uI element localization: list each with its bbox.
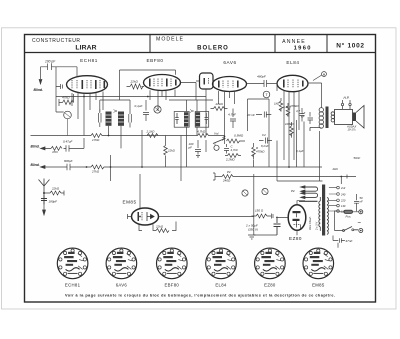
wire detector line bbox=[248, 99, 270, 167]
volume pot wiper bbox=[213, 138, 225, 144]
meter point M bbox=[322, 72, 327, 77]
svg-text:ECH81: ECH81 bbox=[65, 283, 81, 288]
wire coupling bbox=[276, 141, 278, 177]
wire EM85 grid bbox=[139, 174, 141, 208]
svg-text:19-17c: 19-17c bbox=[348, 128, 357, 132]
capacitor 50nF mains bbox=[354, 194, 359, 211]
IF2 secondary coil bbox=[196, 112, 201, 126]
IF1 trimmer cap left bbox=[99, 109, 102, 127]
M circle bbox=[242, 190, 248, 196]
svg-text:4,7kΩ: 4,7kΩ bbox=[197, 130, 206, 134]
svg-text:0,1μF: 0,1μF bbox=[296, 149, 304, 153]
socket ECH81 bbox=[57, 248, 88, 279]
heater bus line bbox=[215, 176, 222, 178]
node dot bbox=[147, 96, 149, 98]
wire IF1 secondary return bbox=[141, 130, 143, 167]
wire AF takeoff bbox=[110, 155, 112, 181]
resistor 22k EBF80 grid bbox=[127, 84, 145, 89]
wire 6AV6 pins bbox=[219, 91, 235, 137]
capacitor 800pF bbox=[67, 164, 91, 170]
wire stub up bbox=[83, 138, 85, 148]
IF2 secondary box bbox=[195, 112, 209, 128]
resistor 1k vertical bbox=[279, 98, 283, 112]
node dot EM85 bbox=[139, 216, 141, 218]
speaker frame bbox=[335, 110, 353, 125]
antenna arrow down bbox=[43, 205, 46, 215]
svg-text:2 x 3 V: 2 x 3 V bbox=[315, 222, 319, 231]
screen bypass caps column bbox=[279, 98, 304, 138]
svg-text:22kΩ: 22kΩ bbox=[215, 102, 224, 106]
test point T bbox=[263, 91, 270, 98]
resistor 17k bbox=[91, 134, 198, 138]
fuse bbox=[344, 210, 353, 213]
tube ECH81 electrodes bbox=[72, 80, 105, 89]
wire B+ feed bbox=[319, 131, 321, 181]
svg-text:N° 1002: N° 1002 bbox=[336, 42, 364, 50]
wire osc section bbox=[56, 67, 64, 112]
wire filter center bbox=[253, 174, 255, 235]
svg-text:ECH81: ECH81 bbox=[80, 58, 98, 63]
svg-text:H.P.: H.P. bbox=[344, 96, 350, 100]
header bottom rule bbox=[25, 52, 376, 54]
wire cap to grid bbox=[56, 67, 77, 77]
svg-text:22kΩ: 22kΩ bbox=[51, 187, 60, 191]
svg-text:4,7nF: 4,7nF bbox=[228, 113, 237, 117]
IF1 secondary coil bbox=[118, 112, 124, 126]
svg-text:150 Ω: 150 Ω bbox=[255, 209, 264, 213]
svg-text:2,2MΩ: 2,2MΩ bbox=[225, 158, 235, 162]
svg-text:47kΩ: 47kΩ bbox=[62, 96, 70, 100]
wire top link bbox=[120, 70, 176, 100]
svg-text:EM85: EM85 bbox=[123, 200, 137, 205]
svg-text:nF: nF bbox=[301, 115, 305, 119]
svg-text:2x3: 2x3 bbox=[340, 186, 346, 190]
node dot bbox=[83, 96, 85, 98]
wire IF2 ground bbox=[180, 136, 182, 182]
socket 6AV6 bbox=[106, 248, 137, 279]
svg-text:22kΩ: 22kΩ bbox=[155, 225, 164, 229]
svg-text:EL84: EL84 bbox=[286, 60, 299, 65]
svg-text:240: 240 bbox=[340, 192, 346, 196]
wire grid return bbox=[253, 160, 255, 168]
EM85 leads bbox=[128, 214, 254, 231]
node dot antenna bbox=[43, 192, 45, 194]
primary winding left bbox=[319, 197, 320, 231]
terminal bar bbox=[213, 173, 215, 180]
trimmer circle bbox=[154, 106, 161, 113]
wire filter bus bbox=[254, 234, 277, 236]
wire switch to transformer bbox=[335, 211, 344, 231]
ground filter bbox=[248, 235, 256, 239]
capacitor 47nF bbox=[333, 238, 345, 242]
svg-text:~: ~ bbox=[358, 221, 362, 227]
IF transformer 2 bbox=[169, 100, 213, 140]
mains terminal 1 bbox=[359, 210, 363, 214]
grid terminal bbox=[56, 84, 63, 89]
mains taps bbox=[329, 188, 337, 211]
svg-text:Pil.: Pil. bbox=[291, 189, 295, 193]
switch bbox=[344, 227, 358, 231]
capacitor 8.2nF coupling bbox=[259, 138, 272, 144]
resistor 240 bbox=[222, 175, 356, 182]
resistor 150 filter bbox=[252, 214, 274, 219]
resistor 470k vertical bbox=[252, 143, 256, 159]
header divider v1 bbox=[149, 35, 151, 53]
svg-text:4,7nF: 4,7nF bbox=[231, 148, 239, 152]
svg-text:4,7: 4,7 bbox=[296, 109, 300, 113]
IF2 primary cap bbox=[175, 113, 179, 124]
heater winding loop 2 bbox=[302, 193, 318, 197]
resistor 22k EM85 bbox=[156, 229, 169, 233]
svg-text:EL84: EL84 bbox=[215, 283, 227, 288]
speaker cone bbox=[356, 106, 364, 129]
capacitor 4.7nF det bbox=[230, 109, 236, 129]
node dot bbox=[224, 136, 226, 138]
svg-text:Blind.: Blind. bbox=[34, 88, 43, 92]
EM85 electrodes bbox=[138, 212, 155, 221]
grid resistor 22k vertical bbox=[164, 136, 168, 168]
IF2 primary coil bbox=[184, 112, 189, 126]
svg-text:CONSTRUCTEUR: CONSTRUCTEUR bbox=[32, 38, 81, 44]
svg-text:6AV6: 6AV6 bbox=[223, 60, 236, 65]
header divider v3 bbox=[326, 35, 328, 53]
svg-text:47nF: 47nF bbox=[346, 239, 353, 243]
capacitor 100pF bbox=[195, 140, 201, 157]
svg-text:1960: 1960 bbox=[294, 45, 312, 51]
wire AVC bus bbox=[56, 96, 206, 98]
tube ECH81 envelope bbox=[67, 76, 108, 94]
svg-text:50nF: 50nF bbox=[354, 156, 361, 160]
svg-text:EZ80: EZ80 bbox=[264, 283, 276, 288]
resistor 22k antenna bbox=[44, 191, 64, 196]
socket EZ80 bbox=[255, 248, 286, 279]
IF transformer 1 bbox=[100, 100, 130, 148]
svg-text:Pil.: Pil. bbox=[227, 170, 231, 174]
blind line 2 arrow bbox=[41, 166, 68, 169]
IF2 primary box bbox=[174, 112, 189, 128]
capacitor 0.47uF bbox=[64, 145, 85, 151]
capacitor 4.7nF pot bbox=[224, 144, 229, 154]
tube EL84 envelope bbox=[277, 75, 308, 91]
wire cathode return bbox=[296, 120, 298, 167]
IF1 primary coil bbox=[106, 112, 112, 126]
EZ80 leads bbox=[276, 201, 305, 236]
svg-text:Voir à la page suivante le cro: Voir à la page suivante le croquis du bl… bbox=[65, 294, 335, 298]
header divider v2 bbox=[274, 35, 276, 53]
wire 6AV6 diode bbox=[196, 81, 206, 136]
coupling capacitor 480pF bbox=[247, 80, 278, 87]
wire EL84 anode bbox=[308, 83, 322, 108]
svg-text:nF: nF bbox=[360, 199, 364, 203]
svg-text:480pF: 480pF bbox=[257, 75, 267, 79]
speaker magnet bbox=[353, 113, 357, 122]
svg-text:EZ80: EZ80 bbox=[289, 236, 302, 241]
secondary winding right bbox=[327, 198, 328, 235]
svg-text:6AV6: 6AV6 bbox=[116, 283, 128, 288]
resistor 47 bbox=[51, 146, 62, 150]
socket EM85 bbox=[303, 248, 334, 279]
capacitor 180pF bbox=[41, 195, 47, 204]
svg-text:2,2kΩ: 2,2kΩ bbox=[146, 129, 156, 133]
svg-text:27kΩ: 27kΩ bbox=[91, 169, 100, 173]
pot terminal P bbox=[214, 145, 219, 150]
svg-text:2kΩ: 2kΩ bbox=[332, 167, 339, 171]
main AVC line bbox=[31, 134, 225, 138]
svg-text:0,47μF: 0,47μF bbox=[63, 140, 72, 144]
svg-text:T: T bbox=[265, 93, 267, 97]
output transformer primary bbox=[310, 108, 323, 131]
output transformer core bbox=[326, 107, 329, 129]
svg-text:22kΩ: 22kΩ bbox=[167, 149, 176, 153]
volume pot resistor 0.5M bbox=[227, 139, 246, 143]
svg-text:Vol.: Vol. bbox=[214, 132, 219, 136]
tube EBF80 envelope bbox=[144, 75, 181, 91]
svg-text:Blind.: Blind. bbox=[31, 145, 40, 149]
wire antenna feed arrow bbox=[39, 67, 42, 84]
svg-text:180pF: 180pF bbox=[49, 200, 58, 204]
electrolytic 2x50uF bbox=[274, 217, 281, 236]
tube 6AV6 diode box bbox=[200, 73, 214, 89]
tube EL84 electrodes bbox=[283, 80, 304, 88]
svg-text:470kΩ: 470kΩ bbox=[256, 150, 265, 154]
capacitor 100pF bbox=[41, 64, 57, 71]
resistor 47k bbox=[59, 94, 74, 106]
IF2 secondary cap bbox=[205, 113, 209, 124]
wire EBF80 anode bbox=[181, 83, 197, 101]
wire AVC junction bbox=[224, 137, 226, 144]
mains terminal 2 bbox=[359, 229, 363, 233]
svg-text:ANNEE: ANNEE bbox=[282, 39, 306, 45]
svg-text:Vers Chauf.: Vers Chauf. bbox=[308, 216, 312, 230]
blind line 1 arrow bbox=[41, 147, 52, 150]
antenna bbox=[39, 179, 50, 206]
tube EBF80 electrodes bbox=[149, 79, 177, 87]
IF1 trimmer cap right bbox=[129, 111, 132, 128]
svg-text:130: 130 bbox=[341, 204, 346, 208]
svg-text:(350 V): (350 V) bbox=[248, 228, 258, 232]
svg-text:EBF80: EBF80 bbox=[164, 283, 179, 288]
tube EZ80 envelope bbox=[288, 205, 306, 231]
svg-text:800pF: 800pF bbox=[64, 159, 73, 163]
resistor 100k vertical bbox=[290, 122, 294, 138]
wire ECH81 pins bbox=[72, 92, 103, 136]
heater bar 2x3V bbox=[299, 200, 318, 202]
socket EL84 bbox=[206, 248, 237, 279]
resistor 2.2M bbox=[225, 154, 241, 158]
wire EBF80 pins bbox=[150, 90, 175, 112]
wire EL84 pins bbox=[277, 84, 299, 168]
resistor 22k 6AV6 bbox=[211, 107, 228, 111]
speaker terminals bbox=[341, 100, 351, 109]
resistor 27k bbox=[91, 165, 322, 169]
tube EM85 envelope bbox=[132, 208, 159, 225]
svg-text:Blind.: Blind. bbox=[31, 163, 40, 167]
resistor 22k AVC2 bbox=[147, 134, 158, 138]
wire cap down bbox=[333, 236, 338, 248]
svg-text:100kΩ: 100kΩ bbox=[285, 122, 294, 126]
svg-text:220: 220 bbox=[340, 199, 346, 203]
svg-text:0,1μF: 0,1μF bbox=[135, 104, 144, 108]
svg-text:8,2nF: 8,2nF bbox=[261, 144, 269, 148]
circle 50 bbox=[262, 188, 268, 194]
oscillator padder circle bbox=[64, 111, 72, 119]
heater winding loop 1 bbox=[302, 187, 318, 191]
capacitor 4.7nF tone bbox=[300, 108, 305, 122]
resistor 4.7k bbox=[198, 134, 225, 138]
svg-text:EM85: EM85 bbox=[312, 283, 325, 288]
svg-text:LIRAR: LIRAR bbox=[75, 45, 96, 52]
frame border bbox=[25, 35, 376, 303]
socket EBF80 bbox=[157, 248, 188, 279]
svg-text:Fus.: Fus. bbox=[346, 215, 352, 219]
svg-text:C2: C2 bbox=[262, 133, 266, 137]
wire IF2 primary return bbox=[186, 140, 188, 167]
svg-text:17kΩ: 17kΩ bbox=[92, 138, 100, 142]
svg-text:47Ω: 47Ω bbox=[52, 150, 58, 154]
svg-text:EBF80: EBF80 bbox=[146, 58, 163, 63]
svg-text:470kΩ: 470kΩ bbox=[290, 104, 299, 108]
wire screen feed bbox=[303, 122, 305, 168]
node dot bbox=[108, 135, 110, 137]
svg-text:MODELE: MODELE bbox=[156, 37, 184, 43]
power transformer core bbox=[322, 185, 325, 236]
tube 6AV6 envelope bbox=[213, 77, 247, 92]
tap circles bbox=[337, 186, 340, 212]
EZ80 electrodes bbox=[293, 211, 301, 229]
wire diode load bbox=[205, 140, 207, 152]
svg-text:22kΩ: 22kΩ bbox=[130, 80, 139, 84]
capacitor 4.7nF anode bbox=[308, 112, 314, 124]
resistor 470k vertical bbox=[286, 103, 290, 117]
svg-text:0,5MΩ: 0,5MΩ bbox=[234, 134, 244, 138]
svg-text:240Ω: 240Ω bbox=[222, 179, 231, 183]
output transformer secondary bbox=[331, 112, 334, 115]
svg-text:pF: pF bbox=[188, 145, 193, 149]
capacitor 20nF bbox=[256, 112, 271, 118]
svg-text:1kΩ: 1kΩ bbox=[274, 102, 280, 106]
capacitor 0.1uF bbox=[143, 100, 149, 121]
node dots line2 bbox=[86, 166, 88, 168]
tube 6AV6 electrodes bbox=[204, 78, 239, 88]
svg-text:BOLERO: BOLERO bbox=[197, 45, 229, 51]
svg-text:100 pF: 100 pF bbox=[45, 60, 56, 64]
